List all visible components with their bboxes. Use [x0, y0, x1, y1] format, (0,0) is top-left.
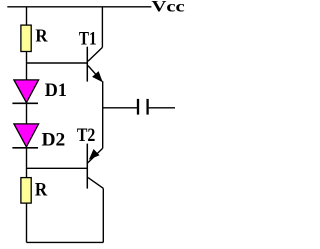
svg-text:R: R: [35, 25, 48, 46]
capacitor C1: [138, 99, 148, 115]
svg-text:T2: T2: [77, 123, 96, 145]
wire: T1 collector riser from Vcc rail: [101, 7, 103, 48]
wire: column from D2 to R2: [26, 148, 28, 178]
svg-text:Vcc: Vcc: [151, 0, 184, 15]
wire: capacitor left lead: [103, 107, 137, 109]
wire: left column from rail to R1: [26, 7, 28, 25]
svg-text:T1: T1: [79, 28, 97, 49]
resistor R1: [21, 25, 31, 51]
wire: T2 base branch: [27, 167, 88, 169]
wire: mid vertical from T1 emitter to T2 emitter: [102, 81, 104, 148]
diode D1: [12, 80, 38, 103]
wire: right vertical from bottom rail to T2 collector: [102, 188, 104, 242]
wire: bottom rail: [27, 241, 104, 243]
transistor T1 (NPN): [87, 47, 102, 82]
wire: column from R2 to bottom rail: [26, 203, 28, 242]
resistor R2: [21, 178, 31, 204]
wire: Vcc top rail: [7, 6, 151, 8]
svg-text:D1: D1: [45, 80, 67, 100]
wire: column from R1 to D1: [26, 52, 28, 81]
wire: column from D1 to D2: [26, 103, 28, 124]
svg-text:D2: D2: [41, 130, 65, 151]
wire: capacitor right lead: [149, 107, 175, 109]
diode D2: [12, 124, 38, 148]
transistor T2 (PNP): [87, 144, 103, 189]
wire: T1 base branch: [27, 62, 88, 64]
svg-text:R: R: [35, 179, 48, 200]
